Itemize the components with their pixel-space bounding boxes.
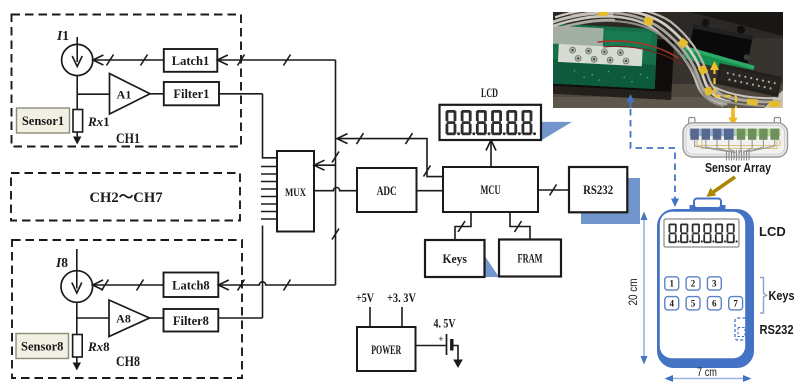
svg-text:A8: A8 <box>116 312 131 326</box>
device RS232 port <box>735 318 748 340</box>
blue arrow up into photo <box>630 99 632 108</box>
wire +3.3V stub <box>401 307 403 327</box>
wire +5V stub <box>369 307 371 327</box>
wire MCU to RS232 <box>538 185 569 196</box>
svg-text:Keys: Keys <box>769 288 795 303</box>
svg-text:Rx1: Rx1 <box>87 114 110 129</box>
wire POWER to battery <box>416 345 447 347</box>
svg-text:FRAM: FRAM <box>518 252 543 266</box>
filter Filter8 <box>164 309 219 332</box>
svg-text:Latch8: Latch8 <box>172 279 210 293</box>
wire control into Latch1 from bus <box>217 55 335 66</box>
wire bus to MUX select <box>314 164 336 166</box>
sensor array blue pins <box>690 129 735 140</box>
dimension 7 cm <box>669 378 747 380</box>
yellow tape bands <box>598 8 781 107</box>
svg-text:Keys: Keys <box>442 252 467 266</box>
svg-text:Sensor Array: Sensor Array <box>705 160 772 175</box>
ADC block <box>357 168 417 212</box>
resistor Rx1 <box>73 110 83 133</box>
svg-text:Rx8: Rx8 <box>87 339 110 354</box>
svg-text:4. 5V: 4. 5V <box>434 317 456 331</box>
MCU block <box>443 167 538 212</box>
sensor array mounting tabs <box>689 118 695 126</box>
svg-text:I8: I8 <box>55 255 68 270</box>
svg-text:Filter1: Filter1 <box>173 87 209 101</box>
LCD shadow triangle <box>542 122 573 140</box>
sensor array green pins <box>735 129 781 140</box>
wire A8 to Filter8 <box>150 317 164 319</box>
current source I1 <box>62 44 93 75</box>
DB25 connector <box>715 63 782 97</box>
wire ADC to MCU <box>417 190 444 192</box>
multiplexer MUX <box>277 151 314 232</box>
FRAM block <box>499 240 561 277</box>
svg-text:20 cm: 20 cm <box>628 279 640 306</box>
svg-text:LCD: LCD <box>481 86 498 100</box>
SECTION: power <box>356 291 463 371</box>
svg-text:Filter8: Filter8 <box>173 314 209 328</box>
svg-text:7: 7 <box>733 299 738 309</box>
wire Filter1 output to MUX feed <box>219 93 263 95</box>
wire I8 node to A8 input <box>77 317 109 319</box>
svg-text:LCD: LCD <box>759 224 786 239</box>
MUX input stub pins <box>261 167 277 220</box>
wire vertical sensor column CH8 <box>76 249 78 363</box>
svg-text:+3. 3V: +3. 3V <box>387 291 416 305</box>
svg-text:MUX: MUX <box>285 187 307 199</box>
svg-text:CH8: CH8 <box>116 354 140 370</box>
left device tray with PCB <box>544 23 674 100</box>
green PCB strip under block <box>682 46 755 77</box>
op-amp A8 <box>109 300 150 337</box>
RS232 shadow <box>581 178 640 224</box>
keypad keys 1-7 <box>665 277 743 310</box>
handheld device body <box>657 209 754 368</box>
wire Latch8 to I8 with bus slashes <box>93 280 164 291</box>
svg-text:POWER: POWER <box>371 343 402 357</box>
sensor array internal routing <box>697 140 780 149</box>
wire Filter1 feed down to MUX <box>263 94 278 158</box>
yellow arrow photo to sensor array <box>731 108 735 120</box>
cable bundle <box>553 6 734 106</box>
Keys shadow triangle <box>485 256 500 278</box>
svg-text:+: + <box>438 334 443 344</box>
wire MCU to LCD <box>490 142 492 168</box>
latch Latch1 <box>164 49 218 72</box>
wire MCU control to bus <box>337 139 443 177</box>
wire battery to ground <box>452 346 458 361</box>
wire Filter8 feed up toward MUX <box>262 226 264 319</box>
svg-text:RS232: RS232 <box>583 183 613 197</box>
dimension 20 cm <box>643 216 645 360</box>
svg-text:Sensor8: Sensor8 <box>21 340 63 354</box>
svg-text:A1: A1 <box>117 88 132 102</box>
svg-text:ADC: ADC <box>377 184 397 198</box>
dark gold arrow to device <box>712 177 735 193</box>
svg-text:RS232: RS232 <box>760 322 794 337</box>
svg-text:CH2～CH7: CH2～CH7 <box>90 190 163 206</box>
sensor array body <box>683 123 788 157</box>
svg-text:4: 4 <box>669 299 674 309</box>
op-amp A1 <box>110 74 151 115</box>
svg-text:Sensor1: Sensor1 <box>22 114 64 128</box>
svg-text:CH1: CH1 <box>116 131 140 147</box>
svg-text:+5V: +5V <box>356 291 374 305</box>
svg-text:2: 2 <box>691 279 696 289</box>
CH1 dashed box <box>12 15 242 147</box>
wire I1 node to A1 input <box>77 93 109 95</box>
yellow dashed annotation in photo <box>715 68 737 108</box>
Keys block <box>425 240 485 277</box>
right sensor holder block <box>689 17 756 64</box>
device top connector tab <box>690 205 726 211</box>
RS232 block <box>569 167 627 212</box>
CH8 dashed box <box>12 240 242 378</box>
POWER block <box>357 327 416 371</box>
filter Filter1 <box>164 82 219 105</box>
wire A1 to Filter1 <box>150 93 164 95</box>
svg-text:1: 1 <box>669 279 674 289</box>
wire MCU to FRAM <box>510 212 530 240</box>
resistor Rx8 <box>73 335 83 358</box>
ground battery <box>453 360 463 369</box>
sensor Sensor8 <box>16 334 69 359</box>
wire MCU to Keys <box>455 212 471 240</box>
wire control into Latch8 from bus <box>218 280 335 291</box>
device LCD <box>664 219 739 247</box>
svg-text:MCU: MCU <box>481 183 501 197</box>
keys bracket <box>760 278 767 314</box>
battery 4.5V <box>447 334 452 355</box>
wire MUX to ADC with hop over bus <box>314 188 357 191</box>
svg-text:6: 6 <box>712 299 717 309</box>
svg-text:3: 3 <box>712 279 717 289</box>
LCD display module <box>440 105 542 140</box>
ground CH1 <box>73 137 81 145</box>
CH2~CH7 dashed box <box>11 173 240 221</box>
wire Latch1 to I1 with bus slashes <box>93 55 164 66</box>
photo of measurement setup <box>544 6 783 108</box>
svg-text:I1: I1 <box>56 28 69 43</box>
control bus vertical <box>332 60 339 285</box>
current source I8 <box>61 271 93 303</box>
latch Latch8 <box>164 273 219 298</box>
SECTION: left channel blocks <box>11 15 336 379</box>
sensor array comb pins <box>727 150 750 161</box>
wire vertical sensor column CH1 <box>76 37 78 137</box>
SECTION: right illustrations <box>628 108 795 382</box>
SECTION: photo <box>544 6 783 207</box>
SECTION: center blocks <box>261 60 640 318</box>
cable fan into connector <box>708 87 780 106</box>
blue dashed annotation path <box>631 109 676 200</box>
ground CH8 <box>73 363 81 371</box>
wire Filter8 output to MUX feed <box>218 317 262 319</box>
svg-text:Latch1: Latch1 <box>172 54 210 68</box>
sensor Sensor1 <box>17 108 70 133</box>
svg-text:5: 5 <box>691 299 696 309</box>
LCD 7-seg digits <box>446 110 537 135</box>
svg-text:7 cm: 7 cm <box>697 367 717 379</box>
